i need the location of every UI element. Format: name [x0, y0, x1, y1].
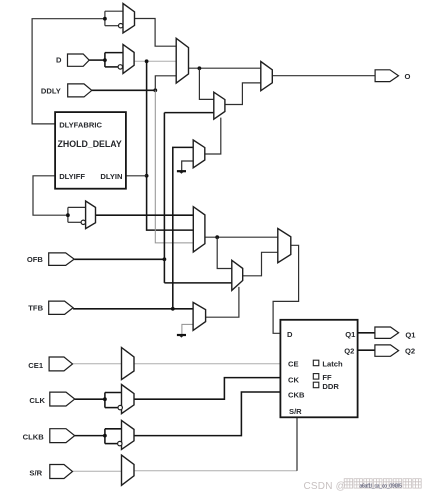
svg-text:ZHOLD_DELAY: ZHOLD_DELAY [58, 139, 122, 149]
svg-text:DLYIN: DLYIN [100, 172, 122, 181]
svg-text:CLK: CLK [29, 396, 45, 405]
svg-text:D: D [287, 330, 293, 339]
svg-text:CKB: CKB [288, 390, 305, 399]
svg-text:Q1: Q1 [345, 330, 356, 339]
svg-text:DDR: DDR [322, 382, 339, 391]
svg-text:DDLY: DDLY [41, 86, 61, 95]
svg-text:a6af1l_ca_co_09l3l5: a6af1l_ca_co_09l3l5 [360, 483, 402, 489]
svg-text:OFB: OFB [27, 255, 44, 264]
svg-text:O: O [405, 72, 411, 81]
svg-text:CSDN @: CSDN @ [304, 481, 346, 492]
svg-text:Q2: Q2 [344, 346, 354, 355]
svg-text:Q1: Q1 [405, 330, 416, 339]
svg-text:S/R: S/R [289, 407, 302, 416]
svg-text:Q2: Q2 [405, 346, 415, 355]
svg-text:DLYIFF: DLYIFF [59, 172, 85, 181]
svg-text:TFB: TFB [28, 304, 43, 313]
svg-text:CK: CK [288, 376, 299, 385]
svg-text:Latch: Latch [322, 360, 343, 369]
svg-text:CE: CE [288, 360, 299, 369]
svg-text:CLKB: CLKB [23, 433, 45, 442]
svg-text:FF: FF [322, 373, 332, 382]
svg-text:D: D [56, 55, 62, 64]
svg-text:CE1: CE1 [28, 361, 44, 370]
svg-text:S/R: S/R [29, 469, 42, 478]
svg-text:DLYFABRIC: DLYFABRIC [59, 120, 102, 129]
